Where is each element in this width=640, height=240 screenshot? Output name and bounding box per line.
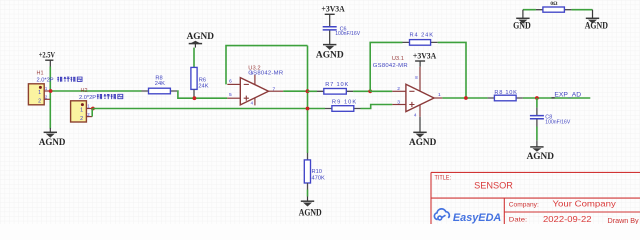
svg-text:100nF/16V: 100nF/16V [335, 31, 361, 37]
wire R4 feedback left [370, 42, 402, 91]
power flag +2.5V [39, 50, 56, 67]
wire U3.2 feedback loop [226, 46, 308, 85]
resistor R0 0R jumper [523, 1, 593, 12]
svg-text:24K: 24K [198, 84, 208, 90]
op-amp U3.2 [227, 65, 283, 105]
wire junction to R7 [308, 90, 318, 92]
svg-text:AGND: AGND [585, 20, 609, 30]
wire center column x=307.5 [307, 46, 309, 153]
svg-text:5: 5 [229, 92, 232, 98]
wire R4 feedback right [438, 42, 466, 98]
svg-text:2.0*2P: 2.0*2P [37, 78, 54, 84]
svg-text:R6: R6 [199, 77, 206, 83]
H1 value CJK 排针排母 [57, 77, 82, 82]
capacitor C8 [530, 98, 571, 147]
svg-text:EXP_AD: EXP_AD [554, 91, 581, 98]
wire R9 to U3.1 pin3 [361, 105, 393, 109]
ground AGND flag above R6 (flipped) [187, 31, 215, 48]
wire AGND to R6 [193, 48, 195, 68]
node junction H2 pin1 [91, 107, 95, 111]
svg-text:Date:: Date: [509, 217, 528, 224]
svg-text:R10: R10 [312, 169, 322, 175]
net label EXP_AD [552, 91, 582, 98]
svg-text:Your Company: Your Company [553, 199, 617, 209]
resistor R8 24K [142, 75, 178, 93]
svg-text:Drawn By: Drawn By [608, 216, 640, 224]
wire H1 pin1 row to R8 [50, 90, 141, 92]
svg-text:+3V3A: +3V3A [413, 51, 437, 61]
svg-text:2.0*2P: 2.0*2P [79, 95, 96, 101]
wire R10 to AGND [307, 190, 309, 197]
svg-text:AGND: AGND [409, 137, 437, 147]
resistor R6 24K [191, 67, 209, 98]
svg-text:7: 7 [273, 86, 276, 92]
svg-text:GS8042-MR: GS8042-MR [248, 71, 283, 77]
svg-text:AGND: AGND [187, 31, 215, 41]
svg-text:2022-09-22: 2022-09-22 [543, 214, 592, 224]
EasyEDA logo [434, 209, 501, 224]
title block [431, 172, 640, 224]
H2 value CJK 排针排母 [97, 94, 123, 99]
svg-text:3: 3 [397, 99, 400, 105]
connector H2 [71, 88, 97, 122]
node junction R6/pin5 row [193, 96, 197, 100]
svg-text:R8 10K: R8 10K [494, 90, 517, 96]
svg-text:U3.1: U3.1 [392, 56, 404, 62]
svg-text:GS8042-MR: GS8042-MR [373, 63, 408, 69]
ground GND left of R0 [513, 10, 531, 31]
resistor R10 470K [304, 153, 325, 190]
svg-text:AGND: AGND [527, 151, 555, 161]
svg-text:H1: H1 [37, 71, 44, 77]
svg-text:+3V3A: +3V3A [321, 3, 345, 13]
svg-text:AGND: AGND [39, 137, 66, 147]
ground AGND under H1 [39, 128, 66, 147]
power flag +3V3A above U3.1 [413, 51, 437, 67]
wire H2 row to R9 [93, 108, 325, 110]
svg-text:AGND: AGND [299, 207, 322, 217]
svg-text:1: 1 [38, 90, 41, 96]
wire +2.5V rail down to AGND [49, 67, 51, 129]
connector H1 [28, 71, 53, 105]
svg-text:GND: GND [513, 20, 531, 30]
node junction R7/R4 [368, 89, 372, 93]
svg-text:AGND: AGND [316, 50, 344, 60]
wire R8 to EXP_AD [523, 97, 590, 99]
node junction H1 pin1 / +2.5V rail [49, 89, 53, 93]
op-amp U3.1 [373, 56, 443, 118]
wire U3.2 output to junction [283, 90, 307, 92]
ground AGND under C6 [316, 45, 344, 60]
svg-text:6: 6 [229, 78, 232, 84]
ground AGND under R10 [299, 197, 322, 218]
svg-text:EasyEDA: EasyEDA [453, 212, 501, 224]
svg-text:100nF/16V: 100nF/16V [545, 120, 571, 126]
svg-text:H2: H2 [81, 88, 88, 94]
resistor R8 10K [488, 90, 523, 101]
svg-text:R9 10K: R9 10K [332, 99, 357, 105]
capacitor C6 [323, 26, 361, 44]
node junction R10 tap [306, 107, 310, 111]
svg-text:470K: 470K [312, 175, 325, 181]
wire U3.1 output [442, 97, 487, 99]
svg-text:2: 2 [80, 116, 83, 122]
node junction C8 tap [535, 96, 539, 100]
svg-text:TITLE:: TITLE: [435, 175, 452, 182]
ground AGND under U3.1 [409, 117, 437, 147]
svg-text:2: 2 [38, 99, 41, 105]
ground AGND under C8 [527, 147, 555, 161]
wire junction to U3.1 pin2 [370, 90, 392, 92]
svg-text:Company:: Company: [509, 201, 539, 208]
svg-text:1: 1 [438, 92, 441, 98]
resistor R7 10K [317, 82, 353, 94]
node junction output/R4 [464, 96, 468, 100]
resistor R4 24K [403, 33, 438, 46]
wire R8 to pin5 row [177, 91, 227, 98]
svg-text:SENSOR: SENSOR [474, 180, 513, 191]
svg-text:2: 2 [397, 86, 400, 92]
wire H2 pin2 loop [91, 109, 93, 117]
wire R7 to junction [353, 90, 370, 92]
svg-text:24K: 24K [155, 81, 165, 87]
power flag +3V3A above C6 [321, 3, 345, 26]
resistor R9 10K [325, 99, 361, 111]
svg-text:+2.5V: +2.5V [39, 50, 56, 60]
svg-text:R4 24K: R4 24K [410, 33, 434, 39]
svg-text:1: 1 [80, 108, 83, 114]
node junction U3.2 out [306, 89, 310, 93]
svg-text:0Ω: 0Ω [550, 1, 558, 7]
svg-text:R7 10K: R7 10K [325, 82, 348, 88]
ground AGND right of R0 [585, 10, 609, 31]
